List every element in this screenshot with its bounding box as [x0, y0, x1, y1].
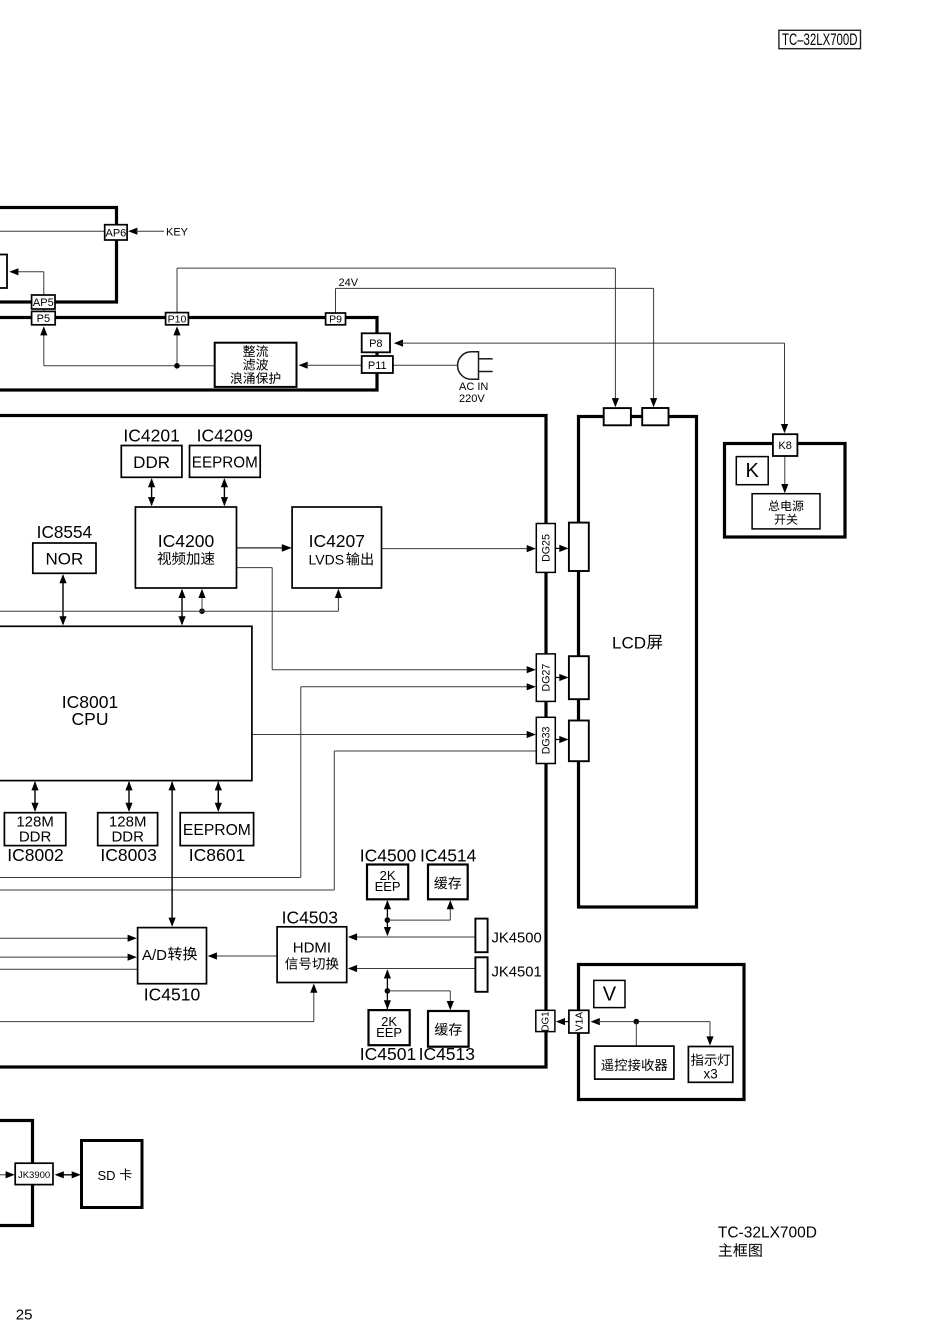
svg-text:DG1: DG1 — [541, 1011, 552, 1031]
svg-text:EEPROM: EEPROM — [192, 454, 258, 471]
svg-text:SD: SD — [98, 1168, 116, 1183]
svg-text:25: 25 — [16, 1307, 33, 1324]
svg-text:IC8554: IC8554 — [37, 522, 93, 542]
svg-text:AP5: AP5 — [33, 297, 54, 309]
svg-text:JK3900: JK3900 — [18, 1170, 50, 1181]
svg-text:x3: x3 — [704, 1066, 718, 1081]
svg-text:220V: 220V — [459, 393, 485, 405]
svg-text:A/D: A/D — [142, 947, 167, 964]
svg-text:P11: P11 — [368, 360, 387, 372]
svg-text:DG27: DG27 — [541, 664, 553, 692]
svg-text:EEP: EEP — [376, 1025, 402, 1040]
svg-text:DG25: DG25 — [541, 534, 553, 562]
svg-text:IC4500: IC4500 — [360, 846, 417, 866]
svg-text:K8: K8 — [778, 440, 791, 452]
svg-text:P8: P8 — [369, 338, 382, 350]
svg-text:HDMI: HDMI — [293, 939, 331, 956]
svg-text:IC4501: IC4501 — [360, 1044, 416, 1064]
svg-text:IC4201: IC4201 — [123, 425, 179, 445]
svg-text:IC8601: IC8601 — [189, 845, 245, 865]
svg-text:EEPROM: EEPROM — [183, 822, 251, 839]
svg-text:LVDS: LVDS — [309, 551, 345, 567]
svg-text:CPU: CPU — [72, 709, 109, 729]
svg-text:P9: P9 — [329, 314, 342, 326]
svg-text:DG33: DG33 — [541, 726, 553, 754]
svg-text:TC–32LX700D: TC–32LX700D — [782, 31, 858, 49]
svg-text:P5: P5 — [37, 313, 50, 325]
svg-text:DDR: DDR — [111, 829, 144, 846]
svg-text:IC4503: IC4503 — [282, 908, 338, 928]
svg-text:V: V — [603, 984, 617, 1006]
svg-text:IC4514: IC4514 — [420, 846, 477, 866]
svg-text:DDR: DDR — [133, 453, 170, 472]
svg-text:JK4500: JK4500 — [492, 931, 542, 947]
svg-text:NOR: NOR — [46, 549, 84, 568]
svg-text:P10: P10 — [168, 313, 187, 325]
svg-text:IC4207: IC4207 — [309, 531, 365, 551]
svg-text:JK4501: JK4501 — [492, 964, 542, 980]
svg-text:IC8002: IC8002 — [7, 845, 63, 865]
svg-text:IC4513: IC4513 — [419, 1044, 475, 1064]
svg-text:TC-32LX700D: TC-32LX700D — [718, 1225, 817, 1242]
svg-text:IC8003: IC8003 — [100, 845, 156, 865]
svg-text:K: K — [746, 460, 760, 482]
svg-text:LCD: LCD — [612, 634, 646, 653]
svg-text:24V: 24V — [339, 277, 359, 289]
svg-text:EEP: EEP — [375, 879, 401, 894]
svg-text:IC4200: IC4200 — [158, 531, 215, 551]
svg-text:V1A: V1A — [574, 1012, 585, 1031]
svg-text:KEY: KEY — [166, 226, 189, 238]
svg-text:AC IN: AC IN — [459, 381, 488, 393]
svg-text:IC4510: IC4510 — [144, 985, 201, 1005]
svg-text:AP6: AP6 — [106, 227, 127, 239]
svg-text:DDR: DDR — [19, 829, 52, 846]
svg-text:IC4209: IC4209 — [197, 425, 253, 445]
